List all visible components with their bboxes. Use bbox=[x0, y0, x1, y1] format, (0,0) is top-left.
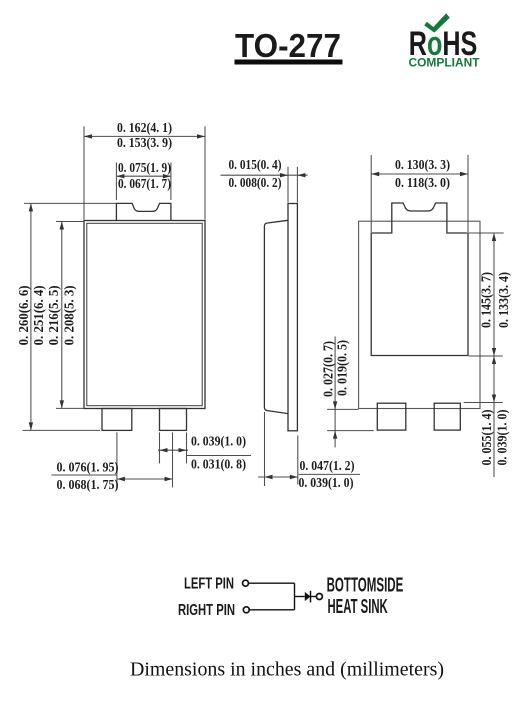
front view top tab with notch bbox=[116, 203, 170, 220]
extension line left, plate thickness dim bbox=[287, 167, 289, 203]
extension line right, plate thickness dim bbox=[296, 167, 298, 203]
arrowhead bottom, plate protrusion bbox=[333, 431, 337, 439]
dimension line, plate thickness bbox=[221, 174, 308, 176]
arrowhead left, pad width bbox=[371, 172, 379, 176]
dimension line, total thickness bbox=[258, 476, 298, 478]
side view lead frame plate bbox=[288, 204, 297, 431]
svg-text:0. 251(6. 4): 0. 251(6. 4) bbox=[31, 285, 46, 345]
extension line left, tab width dim bbox=[115, 163, 117, 201]
back view body outline bbox=[359, 221, 480, 408]
svg-text:0. 076(1. 95): 0. 076(1. 95) bbox=[57, 460, 119, 475]
svg-text:0. 039(1. 0): 0. 039(1. 0) bbox=[495, 410, 510, 466]
arrowhead top, body height bbox=[60, 222, 64, 230]
arrowhead top, plate protrusion bbox=[333, 401, 337, 409]
extension line left, pin width dim bbox=[159, 432, 161, 463]
extension line bottom, pad height dim bbox=[469, 355, 503, 357]
wire from diode cathode bbox=[311, 596, 317, 598]
arrowhead right, plate thickness bbox=[297, 173, 305, 177]
extension line right, package width dim bbox=[204, 126, 206, 219]
svg-text:0. 068(1. 75): 0. 068(1. 75) bbox=[57, 477, 119, 492]
svg-text:0. 118(3. 0): 0. 118(3. 0) bbox=[395, 175, 450, 190]
title underline bbox=[235, 60, 343, 65]
dimension line, pad width bbox=[371, 173, 468, 175]
arrowhead right, package width bbox=[197, 134, 205, 138]
svg-text:0. 130(3. 3): 0. 130(3. 3) bbox=[395, 157, 450, 172]
svg-text:TO-277: TO-277 bbox=[235, 27, 341, 64]
extension line left, package width dim bbox=[83, 126, 85, 219]
arrowhead left, tab width bbox=[116, 174, 124, 178]
dimension line, pin width bbox=[158, 449, 188, 451]
svg-text:0. 039(1. 0): 0. 039(1. 0) bbox=[299, 475, 354, 490]
arrowhead left, pin pitch bbox=[117, 477, 125, 481]
extension line top, pad height dim bbox=[466, 232, 504, 234]
arrowhead right, pin pitch bbox=[165, 477, 173, 481]
wire from left pin terminal bbox=[249, 582, 295, 584]
arrowhead top, overall height bbox=[29, 203, 33, 211]
svg-text:0. 162(4. 1): 0. 162(4. 1) bbox=[117, 120, 172, 135]
dimension line, pin pitch bbox=[117, 478, 173, 480]
leader line, pin pitch labels bbox=[52, 474, 117, 476]
svg-text:COMPLIANT: COMPLIANT bbox=[409, 57, 480, 69]
extension line top, overall height dim bbox=[24, 202, 116, 204]
dimension line, overall height bbox=[30, 203, 32, 430]
extension line left, pad width dim bbox=[370, 155, 372, 232]
dimension line, pad height and pin region bbox=[493, 233, 495, 477]
svg-text:LEFT PIN: LEFT PIN bbox=[184, 576, 234, 593]
extension line right, tab width dim bbox=[170, 163, 172, 201]
leader line, pin width labels bbox=[187, 455, 252, 457]
extension line left, total thickness dim bbox=[264, 412, 266, 486]
dimension line, package width bbox=[84, 135, 205, 137]
svg-text:0. 145(3. 7): 0. 145(3. 7) bbox=[478, 272, 493, 328]
terminal circle, right pin bbox=[243, 607, 249, 613]
svg-text:HEAT SINK: HEAT SINK bbox=[328, 596, 389, 618]
arrowhead left, total thickness bbox=[265, 475, 273, 479]
wire junction vertical bbox=[294, 583, 296, 610]
dimension line, plate protrusion bbox=[334, 337, 336, 448]
svg-text:0. 075(1. 9): 0. 075(1. 9) bbox=[118, 160, 171, 175]
svg-text:RIGHT PIN: RIGHT PIN bbox=[178, 602, 235, 619]
back view right pin bbox=[434, 403, 460, 430]
svg-text:0. 027(0. 7): 0. 027(0. 7) bbox=[320, 341, 335, 397]
extension line bottom, plate protrusion dim bbox=[327, 430, 374, 432]
extension line top, body height dim bbox=[56, 221, 84, 223]
dimension line, body height bbox=[61, 222, 63, 409]
front view body outer outline bbox=[84, 221, 205, 409]
svg-text:0. 216(5. 5): 0. 216(5. 5) bbox=[46, 285, 61, 345]
arrowhead top, pad height bbox=[492, 233, 496, 241]
extension line bottom, overall height dim bbox=[23, 429, 101, 431]
extension line right, total thickness dim bbox=[297, 435, 299, 484]
arrowhead left, package width bbox=[84, 134, 92, 138]
diode D1 triangle bbox=[305, 592, 311, 601]
diode D1 cathode bar bbox=[310, 591, 312, 603]
arrowhead left, pin width bbox=[160, 448, 168, 452]
side view body profile bbox=[264, 220, 288, 413]
svg-text:BOTTOMSIDE: BOTTOMSIDE bbox=[327, 575, 404, 597]
arrowhead right, pin width bbox=[179, 448, 187, 452]
svg-text:0. 133(3. 4): 0. 133(3. 4) bbox=[496, 272, 511, 328]
svg-text:Dimensions in inches and (mill: Dimensions in inches and (millimeters) bbox=[130, 659, 444, 681]
svg-text:0. 015(0. 4): 0. 015(0. 4) bbox=[229, 157, 282, 172]
extension line bottom, pin region dim bbox=[464, 402, 503, 404]
svg-text:0. 008(0. 2): 0. 008(0. 2) bbox=[229, 175, 282, 190]
arrowhead bottom, pad height bbox=[492, 348, 496, 356]
svg-text:0. 055(1. 4): 0. 055(1. 4) bbox=[479, 410, 494, 466]
svg-text:0. 031(0. 8): 0. 031(0. 8) bbox=[191, 457, 246, 472]
front view body inner outline bbox=[87, 223, 202, 405]
extension line right, pad width dim bbox=[467, 155, 469, 232]
leader line, total thickness labels bbox=[299, 473, 360, 475]
svg-text:0. 047(1. 2): 0. 047(1. 2) bbox=[300, 458, 355, 473]
svg-text:0. 153(3. 9): 0. 153(3. 9) bbox=[117, 135, 172, 150]
RoHS logo checkmark bbox=[424, 13, 450, 32]
extension line right, pin pitch dim bbox=[172, 432, 174, 487]
svg-text:0. 067(1. 7): 0. 067(1. 7) bbox=[118, 176, 171, 191]
svg-text:0. 260(6. 6): 0. 260(6. 6) bbox=[16, 285, 31, 345]
arrowhead right, pad width bbox=[460, 172, 468, 176]
back view heat sink pad with tab bbox=[371, 203, 468, 356]
arrowhead bottom, pin region bbox=[492, 395, 496, 403]
dimension line, tab width bbox=[116, 175, 170, 177]
extension line left, pin pitch dim bbox=[116, 432, 118, 487]
arrowhead top, pin region bbox=[492, 356, 496, 364]
wire to diode anode bbox=[295, 596, 305, 598]
arrowhead right, tab width bbox=[163, 174, 171, 178]
arrowhead left, plate thickness bbox=[280, 173, 288, 177]
terminal circle, left pin bbox=[243, 580, 249, 586]
terminal circle, bottomside heat sink bbox=[316, 594, 322, 600]
back view left pin bbox=[377, 403, 406, 430]
arrowhead bottom, body height bbox=[60, 400, 64, 408]
extension line top, plate protrusion dim bbox=[327, 408, 358, 410]
extension line right, pin width dim bbox=[186, 432, 188, 463]
arrowhead right, total thickness bbox=[290, 475, 298, 479]
front view left pin bbox=[102, 409, 132, 431]
arrowhead bottom, overall height bbox=[29, 422, 33, 430]
svg-text:0. 039(1. 0): 0. 039(1. 0) bbox=[191, 434, 246, 449]
svg-text:0. 208(5. 3): 0. 208(5. 3) bbox=[62, 285, 77, 345]
front view right pin bbox=[160, 409, 187, 431]
svg-text:0. 019(0. 5): 0. 019(0. 5) bbox=[335, 340, 350, 396]
wire from right pin terminal bbox=[250, 609, 295, 611]
extension line bottom, body height dim bbox=[56, 407, 84, 409]
